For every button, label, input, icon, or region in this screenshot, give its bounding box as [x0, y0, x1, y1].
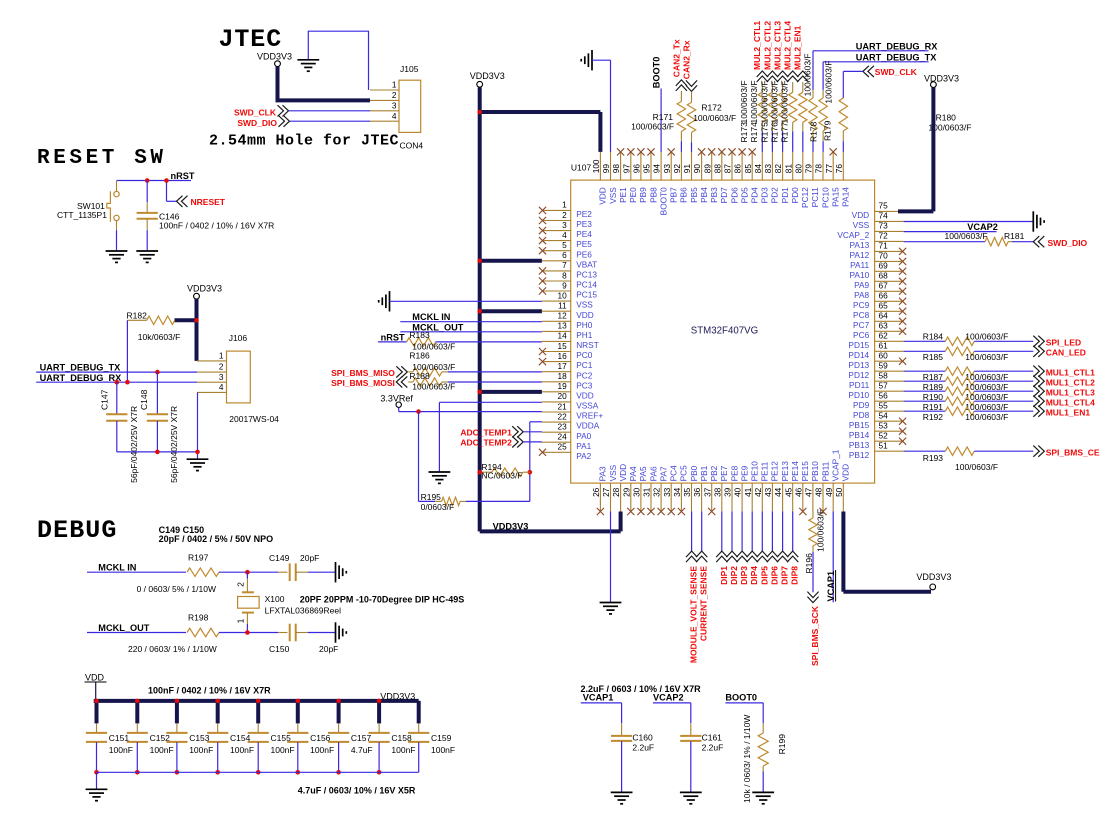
svg-text:1: 1 — [562, 200, 567, 210]
svg-text:PB9: PB9 — [638, 187, 648, 203]
svg-text:VDDA: VDDA — [576, 421, 600, 431]
svg-text:R195: R195 — [421, 492, 442, 502]
resistor R186 — [408, 371, 413, 373]
svg-text:PE15: PE15 — [800, 461, 810, 482]
svg-text:100/0603/F: 100/0603/F — [412, 382, 455, 392]
svg-text:PA10: PA10 — [850, 270, 870, 280]
svg-text:100/0603/F: 100/0603/F — [965, 382, 1008, 392]
connector J105 body — [399, 80, 421, 132]
svg-text:PE1: PE1 — [618, 187, 628, 203]
wire C149 to ground — [296, 571, 308, 573]
svg-text:72: 72 — [879, 231, 889, 241]
svg-text:MODULE_VOLT_SENSE: MODULE_VOLT_SENSE — [689, 566, 699, 663]
junction bus/C153 — [175, 699, 180, 704]
mcu pin 81 (PD0) — [792, 152, 794, 180]
mcu pin 14 (NRST) — [542, 340, 571, 342]
wire MCKL_IN to R197 — [87, 571, 186, 573]
svg-text:DIP3: DIP3 — [739, 566, 749, 585]
mcu pin 55 (PD8) — [875, 410, 904, 412]
svg-text:PB15: PB15 — [849, 420, 870, 430]
svg-text:VDD: VDD — [618, 464, 628, 482]
svg-text:PB8: PB8 — [648, 187, 658, 203]
svg-text:PC6: PC6 — [853, 330, 870, 340]
svg-text:VCAP1: VCAP1 — [583, 692, 614, 702]
svg-text:MUL2_CTL4: MUL2_CTL4 — [783, 21, 793, 70]
net label DIP8 — [792, 512, 794, 552]
svg-text:PA2: PA2 — [576, 451, 591, 461]
svg-text:R174: R174 — [749, 122, 759, 143]
mcu pin 97 (PE0) — [630, 152, 632, 180]
ground (C146) — [136, 250, 158, 252]
mcu pin 96 (PB9) — [640, 152, 642, 180]
mcu pin 58 (PD11) — [875, 380, 904, 382]
svg-text:PB1: PB1 — [699, 465, 709, 481]
svg-text:PD8: PD8 — [853, 410, 870, 420]
svg-text:C157: C157 — [351, 733, 372, 743]
svg-text:100nF: 100nF — [230, 745, 254, 755]
mcu pin 2 (PE3) — [542, 220, 571, 222]
svg-text:MUL1_EN1: MUL1_EN1 — [1046, 407, 1091, 417]
mcu pin 29 (PA4) — [630, 483, 632, 511]
junction bus/C156 — [296, 699, 301, 704]
wire R183 to pin14 — [436, 341, 542, 343]
capacitor C153 — [176, 723, 178, 732]
junction bus/pin19 branch — [477, 390, 482, 395]
mcu pin 21 (VREF+) — [542, 411, 571, 413]
svg-text:2: 2 — [392, 90, 397, 100]
svg-text:100/0603/F: 100/0603/F — [693, 113, 736, 123]
wire cap bank ground rail — [97, 771, 419, 773]
svg-text:11: 11 — [558, 301, 567, 311]
junction crystal bottom — [245, 630, 250, 635]
mcu pin 65 (PC8) — [875, 310, 904, 312]
net label DIP3 — [741, 512, 743, 552]
svg-text:100nF: 100nF — [271, 745, 295, 755]
svg-text:C156: C156 — [310, 733, 331, 743]
resistor R174 (MUL2_CTL2 to pin83) — [767, 71, 778, 82]
svg-text:99: 99 — [601, 164, 611, 174]
resistor R189 — [945, 377, 974, 385]
svg-text:56: 56 — [879, 391, 889, 401]
mcu pin 64 (PC7) — [875, 320, 904, 322]
mcu pin 61 (PD14) — [875, 350, 904, 352]
svg-text:PB7: PB7 — [669, 187, 679, 203]
junction rail/C155 — [256, 770, 261, 775]
svg-text:49: 49 — [824, 487, 834, 497]
svg-text:63: 63 — [879, 321, 889, 331]
svg-text:87: 87 — [723, 164, 733, 174]
svg-text:PC7: PC7 — [853, 320, 870, 330]
svg-text:VDD3V3: VDD3V3 — [493, 522, 529, 532]
capacitor C151 — [96, 723, 98, 732]
svg-text:SPI_BMS_CE: SPI_BMS_CE — [1046, 447, 1100, 457]
mcu pin 42 (PE11) — [761, 483, 763, 511]
svg-text:15: 15 — [557, 341, 567, 351]
svg-text:DEBUG: DEBUG — [37, 516, 118, 545]
mcu pin 93 (PB7) — [670, 152, 672, 180]
net label SWD_CLK (top) — [863, 66, 874, 77]
wire R195 to VDDA net — [466, 500, 530, 502]
svg-text:VDD: VDD — [852, 210, 870, 220]
mcu pin 23 (PA0) — [542, 431, 571, 433]
mcu pin 37 (PB2) — [711, 483, 713, 511]
svg-text:U107: U107 — [571, 162, 592, 172]
svg-text:43: 43 — [763, 487, 773, 497]
svg-text:VDD3V3: VDD3V3 — [924, 74, 959, 84]
mcu pin 45 (PE14) — [792, 483, 794, 511]
svg-text:55: 55 — [879, 401, 889, 411]
svg-text:PD11: PD11 — [849, 380, 870, 390]
svg-text:C148: C148 — [139, 389, 149, 410]
svg-text:89: 89 — [702, 164, 712, 174]
svg-text:22: 22 — [557, 411, 567, 421]
mcu pin 31 (PA6) — [650, 483, 652, 511]
svg-text:PH1: PH1 — [576, 330, 593, 340]
mcu pin 12 (PH0) — [542, 320, 571, 322]
svg-text:PA14: PA14 — [841, 187, 851, 207]
svg-text:73: 73 — [879, 221, 889, 231]
junction RX/R182 — [125, 380, 130, 385]
svg-text:R185: R185 — [923, 352, 944, 362]
svg-text:100/0603/F: 100/0603/F — [749, 80, 759, 123]
svg-text:23: 23 — [557, 422, 567, 432]
wire pin56 to R191 — [904, 400, 946, 402]
svg-text:42: 42 — [753, 487, 763, 497]
svg-text:PD5: PD5 — [739, 187, 749, 204]
mcu pin 26 (PA3) — [599, 483, 601, 511]
resistor R181 — [985, 238, 1008, 246]
svg-text:PB10: PB10 — [810, 461, 820, 482]
svg-text:nRST: nRST — [171, 171, 195, 181]
svg-text:100/0603/F: 100/0603/F — [815, 509, 825, 552]
connector J106 pin 3 — [197, 381, 227, 383]
svg-text:MUL1_CTL4: MUL1_CTL4 — [1046, 397, 1095, 407]
svg-text:100/0603/F: 100/0603/F — [965, 402, 1008, 412]
svg-text:DIP5: DIP5 — [759, 566, 769, 585]
mcu pin 11 (VDD) — [542, 310, 571, 312]
mcu pin 27 (VSS) — [610, 483, 612, 511]
svg-text:VDD3V3: VDD3V3 — [916, 572, 951, 582]
mcu pin 69 (PA10) — [875, 270, 904, 272]
svg-text:PA4: PA4 — [628, 466, 638, 481]
mcu pin 84 (PD3) — [761, 152, 763, 180]
mcu pin 71 (PA12) — [875, 250, 904, 252]
mcu pin 62 (PD15) — [875, 340, 904, 342]
svg-text:MUL1_CTL1: MUL1_CTL1 — [1046, 367, 1095, 377]
mcu pin 7 (PC13) — [542, 270, 571, 272]
svg-text:14: 14 — [557, 331, 567, 341]
capacitor C159 — [418, 723, 420, 732]
svg-text:9: 9 — [562, 280, 567, 290]
junction rail/C152 — [135, 770, 140, 775]
svg-text:20pF: 20pF — [319, 644, 338, 654]
mcu pin 53 (PB14) — [875, 430, 904, 432]
svg-text:100/0603/F: 100/0603/F — [955, 462, 998, 472]
svg-text:4.7uF / 0603/ 10% / 16V X5R: 4.7uF / 0603/ 10% / 16V X5R — [298, 786, 416, 796]
svg-text:4: 4 — [392, 111, 397, 121]
svg-text:2.2uF: 2.2uF — [632, 743, 654, 753]
svg-text:PB14: PB14 — [849, 430, 870, 440]
capacitor C148 — [156, 372, 158, 414]
svg-text:PE5: PE5 — [576, 239, 592, 249]
svg-text:R180: R180 — [936, 112, 957, 122]
svg-text:1: 1 — [219, 351, 224, 361]
svg-text:100/0603/F: 100/0603/F — [824, 61, 834, 104]
svg-text:BOOT0: BOOT0 — [658, 187, 668, 216]
svg-text:PD14: PD14 — [848, 350, 869, 360]
mcu pin 77 (PA15) — [832, 152, 834, 180]
wire MCKL_OUT to R198 — [87, 632, 186, 634]
svg-text:20PF 20PPM -10-70Degree DIP HC: 20PF 20PPM -10-70Degree DIP HC-49S — [300, 595, 464, 605]
svg-text:VDD3V3: VDD3V3 — [187, 283, 222, 293]
svg-text:R190: R190 — [923, 392, 944, 402]
svg-text:32: 32 — [652, 487, 662, 497]
svg-text:0/0603/F: 0/0603/F — [421, 502, 455, 512]
resistor R184 — [945, 337, 974, 345]
mcu pin 33 (PC4) — [670, 483, 672, 511]
svg-text:MUL2_EN1: MUL2_EN1 — [793, 25, 803, 70]
ground (C160) — [611, 791, 633, 793]
mcu pin 92 (PB6) — [680, 152, 682, 180]
wire ADC_TEMP1 to pin23 — [524, 431, 542, 433]
svg-text:100/0603/F: 100/0603/F — [631, 121, 674, 131]
svg-text:71: 71 — [879, 241, 889, 251]
svg-text:25: 25 — [557, 442, 567, 452]
capacitor C154 — [217, 723, 219, 732]
mcu pin 52 (PB13) — [875, 440, 904, 442]
svg-text:100nF / 0402 / 10% / 16V X7R: 100nF / 0402 / 10% / 16V X7R — [159, 221, 274, 231]
svg-text:PC8: PC8 — [853, 310, 870, 320]
svg-text:2: 2 — [236, 582, 246, 587]
svg-text:nRST: nRST — [381, 333, 405, 343]
svg-text:LFXTAL036869Reel: LFXTAL036869Reel — [265, 605, 342, 615]
svg-text:VDD: VDD — [85, 672, 105, 682]
mcu pin 46 (PE15) — [802, 483, 804, 511]
svg-text:BOOT0: BOOT0 — [652, 57, 662, 89]
wire VDD3V3 to pin75 (thick) — [931, 88, 935, 212]
svg-text:MCKL IN: MCKL IN — [98, 563, 136, 573]
svg-text:PA8: PA8 — [854, 290, 869, 300]
net label CURRENT_SENSE — [701, 512, 703, 552]
mcu pin 76 (PA14) — [842, 152, 844, 180]
resistor R190 — [945, 387, 974, 395]
wire R181 to SWD_DIO — [1012, 241, 1033, 243]
svg-text:6: 6 — [562, 250, 567, 260]
svg-text:PD2: PD2 — [770, 187, 780, 204]
svg-text:PC13: PC13 — [576, 270, 597, 280]
ground (C149, sideways) — [335, 562, 337, 582]
svg-text:100/0603/F: 100/0603/F — [780, 80, 790, 123]
svg-text:RESET SW: RESET SW — [37, 147, 167, 170]
resistor R172 (CAN2_Rx to pin91) — [686, 80, 697, 91]
svg-text:16: 16 — [557, 351, 567, 361]
svg-text:PE12: PE12 — [770, 461, 780, 482]
mcu pin 24 (PA1) — [542, 441, 571, 443]
svg-text:C149: C149 — [269, 553, 290, 563]
svg-text:PB4: PB4 — [699, 187, 709, 203]
svg-text:MCKL_OUT: MCKL_OUT — [98, 623, 149, 633]
mcu pin 83 (PD2) — [771, 152, 773, 180]
net label DIP4 — [751, 512, 753, 552]
svg-text:54: 54 — [879, 411, 889, 421]
VDD3V3 branch to VDD pin11 (thick) — [480, 309, 542, 313]
resistor R192 — [945, 407, 974, 415]
svg-text:34: 34 — [672, 487, 682, 497]
mcu pin 56 (PD9) — [875, 400, 904, 402]
svg-text:92: 92 — [672, 164, 682, 174]
svg-text:DIP7: DIP7 — [780, 566, 790, 585]
svg-text:PC9: PC9 — [853, 300, 870, 310]
svg-text:CAN_LED: CAN_LED — [1046, 347, 1086, 357]
wire 3.3VRef to pin21 VREF+ — [398, 407, 400, 411]
svg-text:C159: C159 — [431, 733, 452, 743]
resistor R185 — [945, 347, 974, 355]
svg-text:STM32F407VG: STM32F407VG — [691, 325, 758, 336]
wire UART_DEBUG_RX — [36, 381, 197, 383]
wire switch to ground — [116, 221, 118, 231]
net label DIP6 — [771, 512, 773, 552]
mcu pin 57 (PD10) — [875, 390, 904, 392]
wire pin73 VCAP_2 — [904, 231, 997, 233]
mcu pin 15 (PC0) — [542, 351, 571, 353]
svg-text:24: 24 — [557, 432, 567, 442]
svg-text:PC4: PC4 — [669, 465, 679, 482]
svg-text:VDD: VDD — [598, 187, 608, 205]
svg-text:J105: J105 — [400, 64, 419, 74]
svg-text:80: 80 — [793, 164, 803, 174]
wire R182 to UART_DEBUG_RX — [126, 320, 128, 382]
svg-text:75: 75 — [879, 201, 889, 211]
connector J105 pin 2 — [370, 99, 399, 101]
svg-text:PE14: PE14 — [790, 461, 800, 482]
svg-text:40: 40 — [733, 487, 743, 497]
svg-text:ADC_TEMP1: ADC_TEMP1 — [460, 427, 512, 437]
svg-text:37: 37 — [702, 487, 712, 497]
junction RX/C147 — [115, 380, 120, 385]
wire UART_DEBUG_RX top — [813, 50, 929, 52]
svg-text:PA6: PA6 — [648, 466, 658, 481]
mcu pin 5 (PE6) — [542, 250, 571, 252]
svg-text:97: 97 — [621, 164, 631, 174]
svg-text:MUL1_CTL2: MUL1_CTL2 — [1046, 377, 1095, 387]
svg-text:79: 79 — [804, 164, 814, 174]
connector J105 pin 4 — [370, 120, 399, 122]
svg-text:PA13: PA13 — [850, 240, 870, 250]
svg-text:R178: R178 — [809, 121, 819, 142]
connector J105 pin 3 — [370, 110, 399, 112]
junction on reset wire at nRST branch — [164, 178, 169, 183]
capacitor C152 — [136, 723, 138, 732]
resistor R198 — [187, 628, 219, 636]
junction rail/C158 — [377, 770, 382, 775]
junction VDDA/R194 — [528, 470, 533, 475]
resistor R197 — [187, 568, 219, 576]
svg-text:R181: R181 — [1004, 231, 1025, 241]
svg-text:PD0: PD0 — [790, 187, 800, 204]
svg-text:C151: C151 — [109, 733, 130, 743]
wire stub to C153 (thick) — [175, 701, 179, 724]
svg-text:100/0603/F: 100/0603/F — [770, 80, 780, 123]
mcu pin 60 (PD13) — [875, 360, 904, 362]
svg-text:JTEC: JTEC — [219, 25, 283, 54]
mcu pin 38 (PE7) — [721, 483, 723, 511]
junction rail/C156 — [296, 770, 301, 775]
mcu pin 100 (VDD) — [599, 152, 601, 180]
capacitor C157 — [338, 723, 340, 732]
svg-text:PB3: PB3 — [709, 187, 719, 203]
svg-text:MUL2_CTL2: MUL2_CTL2 — [762, 21, 772, 70]
capacitor C160 — [621, 723, 623, 735]
svg-text:PB5: PB5 — [689, 187, 699, 203]
svg-text:PD6: PD6 — [729, 187, 739, 204]
wire VDDA vertical — [529, 422, 531, 502]
svg-text:PC12: PC12 — [800, 187, 810, 208]
wire VCAP1 to C160 — [581, 702, 622, 704]
mcu pin 40 (PE9) — [741, 483, 743, 511]
resistor R199 — [762, 723, 764, 733]
svg-text:81: 81 — [783, 164, 793, 174]
wire caps common rail — [117, 451, 198, 453]
svg-text:1: 1 — [236, 618, 246, 623]
mcu pin 63 (PC6) — [875, 330, 904, 332]
wire MCKL_IN pin12 — [400, 321, 542, 323]
wire pin20 VSSA to ground — [439, 401, 542, 403]
svg-text:VDD3V3: VDD3V3 — [380, 692, 415, 702]
svg-text:100/0603/F: 100/0603/F — [759, 80, 769, 123]
wire VDD stem — [95, 682, 97, 701]
svg-text:2: 2 — [562, 210, 567, 220]
svg-text:68: 68 — [879, 271, 889, 281]
junction VDD3V3/R182 — [194, 318, 199, 323]
svg-text:SPI_LED: SPI_LED — [1046, 337, 1081, 347]
svg-text:PD10: PD10 — [848, 390, 869, 400]
wire R186 to pin17 — [448, 371, 542, 373]
svg-text:84: 84 — [753, 164, 763, 174]
net label SWD_DIO (right) — [1033, 236, 1044, 247]
svg-text:DIP2: DIP2 — [729, 566, 739, 585]
svg-text:2: 2 — [219, 362, 224, 372]
svg-text:VCAP_2: VCAP_2 — [837, 230, 869, 240]
wire MCKL_OUT pin13 — [400, 331, 542, 333]
wire pin99 VSS to ground — [592, 59, 611, 61]
resistor R179 (TX to pin78) — [822, 90, 824, 98]
svg-text:C147: C147 — [99, 389, 109, 410]
mcu pin 8 (PC14) — [542, 280, 571, 282]
resistor R171 (CAN2_Tx to pin92) — [676, 80, 687, 91]
mcu pin 17 (PC2) — [542, 371, 571, 373]
svg-text:PD12: PD12 — [848, 370, 869, 380]
svg-text:PC2: PC2 — [576, 370, 593, 380]
capacitor C155 — [257, 723, 259, 732]
mcu pin 43 (PE12) — [771, 483, 773, 511]
svg-text:VSS: VSS — [853, 220, 870, 230]
mcu pin 13 (PH1) — [542, 330, 571, 332]
net label SPI_LED — [1033, 336, 1044, 347]
svg-text:100/0603/F: 100/0603/F — [945, 231, 988, 241]
mcu pin 73 (VCAP_2) — [875, 230, 904, 232]
wire stub to C151 (thick) — [95, 701, 99, 724]
resistor R194 (NC) — [482, 471, 492, 473]
wire stub to C154 (thick) — [216, 701, 220, 724]
svg-text:64: 64 — [879, 311, 889, 321]
mcu pin 85 (PD4) — [751, 152, 753, 180]
svg-text:86: 86 — [733, 164, 743, 174]
ground (J106 rail) — [187, 458, 209, 460]
svg-text:MUL1_CTL3: MUL1_CTL3 — [1046, 387, 1095, 397]
ground (JTEC) — [297, 59, 319, 61]
resistor R183 — [407, 338, 436, 346]
wire pin62 to R184 — [904, 340, 946, 342]
